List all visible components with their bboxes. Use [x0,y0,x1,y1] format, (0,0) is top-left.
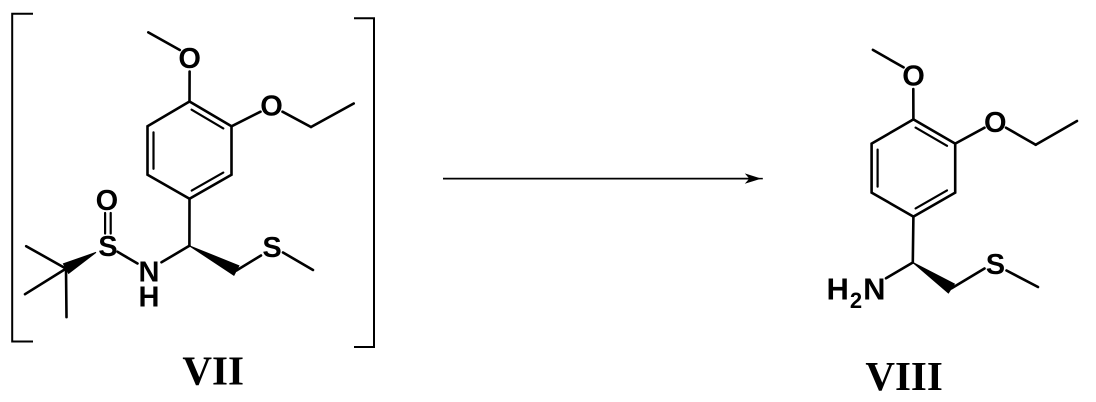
bond VIII C4 to stereocenter CH [911,217,914,263]
ring VIII double bond C1-C2 inner line [916,128,947,146]
wedge bond CH to CH2 (VII) [189,246,239,275]
bond VII C1 to methoxy O [188,72,191,102]
svg-text:VIII: VIII [865,353,942,399]
reaction arrow [443,178,750,180]
bond VII N to sulfinyl S [118,252,138,264]
bond VIII ethoxy O to CH2 [1006,128,1036,145]
svg-text:S: S [98,231,117,263]
ring VIII double bond C3-C4 inner line [916,190,947,208]
ring VII double bond C1-C2 inner line [192,110,224,129]
svg-text:H: H [139,282,160,314]
bond VII C4 to stereocenter CH [188,199,191,246]
svg-text:O: O [902,61,925,93]
ring VII double bond C5-C6 inner line [152,132,154,169]
bond VII C2 to ethoxy O [232,112,261,127]
bond VIII CH to amine N [886,263,913,279]
tert-butyl methyl down [65,269,68,318]
svg-text:S: S [262,232,281,264]
right bracket [354,18,374,347]
svg-text:O: O [984,107,1007,139]
bond VIII C2 to ethoxy O [955,128,984,144]
bond VIII methoxy O to CH3 [873,50,904,68]
bond VIII thioether S to CH3 [1007,271,1039,288]
bond VII methoxy O to CH3 [148,32,180,50]
wedge bond S to tert-butyl C [63,252,96,273]
svg-text:S: S [986,249,1005,281]
svg-text:VII: VII [182,348,244,394]
bond VII CH2 to thioether S [236,256,261,271]
bond VII thioether S to CH3 [283,253,313,271]
benzene ring VII [148,102,232,199]
bond VII CH to N [162,246,190,262]
ring VII double bond C3-C4 inner line [192,173,224,191]
tert-butyl methyl down-left [25,269,66,295]
wedge bond CH to CH2 (VIII) [913,263,955,294]
ring VIII double bond C5-C6 inner line [876,150,878,187]
bond VIII CH2 to thioether S [951,269,984,289]
bond VII ethoxy CH2 to CH3 [311,104,354,128]
left bracket [12,14,33,342]
svg-text:O: O [96,185,119,217]
bond VII ethoxy O to CH2 [283,112,312,127]
svg-text:O: O [178,43,201,75]
sulfinyl S=O double bond [104,213,106,234]
svg-text:O: O [260,91,283,123]
benzene ring VIII [872,119,956,216]
tert-butyl methyl up-left [26,246,66,268]
bond VIII C1 to methoxy O [912,89,915,119]
bond VIII ethoxy CH2 to CH3 [1036,121,1077,145]
